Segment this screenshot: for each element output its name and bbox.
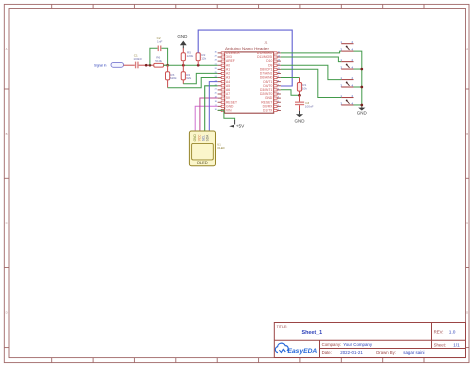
svg-text:J1: J1 [264, 41, 268, 45]
wire A4 to OLED SDA [209, 82, 217, 131]
svg-text:Date:: Date: [322, 350, 332, 355]
wire GND pin to OLED GND [195, 106, 217, 131]
push button S1 [340, 40, 353, 52]
pin 6 D3/INT1 (right) [260, 88, 281, 92]
svg-text:10k: 10k [302, 87, 307, 91]
resistor R4 62k [181, 65, 191, 84]
pin 20 A7 (left) [215, 92, 231, 96]
pin 28 AREF (left) [215, 59, 235, 63]
svg-text:D: D [466, 311, 468, 315]
svg-text:D: D [6, 311, 8, 315]
wire R2 top to D4 (blue) [198, 30, 292, 86]
svg-text:C: C [466, 221, 468, 225]
svg-text:TITLE:: TITLE: [277, 325, 288, 329]
svg-text:100nF: 100nF [305, 105, 314, 109]
pin 30 D13/SCK (left) [215, 51, 241, 55]
pin 24 A3 (left) [215, 76, 231, 80]
pin 13 D10 (right) [266, 59, 281, 63]
pin 9 D6/AIN0 (right) [260, 76, 281, 80]
svg-text:B: B [466, 132, 468, 136]
svg-text:A: A [6, 47, 8, 51]
wire main node to A0 [164, 64, 218, 66]
capacitor C3 100nF [295, 95, 314, 110]
wire A5 to OLED SCL [205, 86, 218, 131]
title block [274, 323, 465, 358]
ground flag below C3 [295, 111, 306, 124]
svg-text:GND: GND [295, 119, 306, 124]
pin 8 D5/T1 (right) [263, 80, 281, 84]
wire D3 to R1/C3 node [281, 90, 300, 96]
svg-text:REV:: REV: [434, 329, 444, 334]
EasyEDA logo [275, 343, 317, 355]
connector J1 Arduino Nano Header [225, 41, 274, 114]
pin 23 A4 (left) [215, 80, 231, 84]
title block texts [277, 325, 461, 355]
node R1 / C3 / D3 [298, 94, 301, 97]
svg-text:Drawn By:: Drawn By: [376, 350, 396, 355]
wire R4 bottom to A2 [183, 73, 217, 83]
OLED module U1 [189, 131, 224, 166]
pin 7 D4/T0 (right) [263, 84, 281, 88]
pin 17 GND (left) [215, 104, 234, 108]
svg-text:Signal In: Signal In [94, 63, 107, 67]
pin 21 A6 (left) [215, 88, 231, 92]
pin 22 A5 (left) [215, 84, 231, 88]
pin 15 D12/MISO (right) [257, 51, 281, 55]
push button S4 [340, 94, 353, 106]
svg-text:2022-01-21: 2022-01-21 [340, 350, 363, 355]
pin 14 D11/MOSI (right) [257, 55, 281, 59]
wire R3 bottom to A3 [168, 78, 218, 88]
pin 1 D1/TX (right) [263, 109, 281, 113]
wire C1 to R6 [139, 64, 154, 66]
pin 27 A0 (left) [215, 63, 231, 67]
svg-text:1nF: 1nF [157, 40, 162, 44]
svg-text:D1/TX: D1/TX [263, 109, 273, 113]
svg-text:GND: GND [177, 34, 188, 39]
pin 12 D9 (right) [268, 63, 281, 67]
wire Signal In to C1 [124, 64, 135, 66]
node bus S2 [360, 68, 363, 71]
resistor R3 620k [166, 65, 178, 88]
pin 10 D7/AIN1 (right) [260, 72, 281, 76]
svg-text:B: B [6, 132, 8, 136]
pin 19 5V (left) [215, 96, 231, 100]
svg-text:A: A [466, 47, 468, 51]
wire 5V pin to OLED VCC [200, 98, 218, 131]
pin 25 A2 (left) [215, 72, 231, 76]
capacitor C1 100nF [133, 53, 142, 68]
wire D8 to button S4 [281, 69, 341, 97]
svg-text:12k: 12k [201, 57, 206, 61]
push button S2 [340, 58, 353, 69]
svg-text:GND: GND [357, 110, 368, 115]
resistor R6 510k [154, 56, 168, 68]
wire D11 to button S2 [281, 57, 341, 62]
resistor R1 10k [297, 83, 307, 96]
capacitor C2 1nF [150, 36, 168, 65]
svg-text:sagar saini: sagar saini [403, 350, 424, 355]
wire button ground bus [354, 51, 362, 107]
svg-text:Your Company: Your Company [343, 342, 373, 347]
svg-text:1/1: 1/1 [453, 343, 460, 348]
wire VIN to +5V flag [218, 110, 235, 120]
power flag +5V [229, 120, 245, 129]
svg-text:Sheet:: Sheet: [434, 343, 446, 348]
node R2 on main line [197, 64, 200, 67]
svg-text:EasyEDA: EasyEDA [288, 348, 318, 355]
pin 26 A1 (left) [215, 67, 231, 71]
ground flag above R5 [177, 34, 188, 48]
svg-text:+5V: +5V [236, 124, 245, 129]
svg-text:C: C [6, 221, 8, 225]
svg-text:Sheet_1: Sheet_1 [302, 330, 323, 336]
svg-text:VIN: VIN [226, 109, 232, 113]
svg-text:Company:: Company: [322, 342, 342, 347]
pin 5 D2/INT0 (right) [260, 92, 281, 96]
svg-text:620k: 620k [170, 76, 177, 80]
pin 2 D0/RX (right) [263, 104, 281, 108]
pin 16 VIN (left) [215, 109, 233, 113]
pin 11 D8/ICP1 (right) [260, 67, 281, 71]
svg-text:100nF: 100nF [133, 57, 142, 61]
node R6 right / C2 / R3 [166, 64, 169, 67]
pin 29 3V3 (left) [215, 55, 232, 59]
svg-text:510k: 510k [155, 59, 162, 63]
push button S3 [340, 76, 353, 88]
resistor R5 120k [181, 48, 193, 65]
net port Signal In [94, 62, 124, 67]
wire D6 to R1 [281, 78, 300, 83]
wire D9 to button S3 [281, 65, 341, 79]
pin 4 GND (right) [265, 96, 281, 100]
svg-text:OLED: OLED [217, 146, 224, 150]
resistor R2 12k [196, 53, 207, 65]
node bus S3 [360, 86, 363, 89]
svg-text:OLED: OLED [197, 160, 208, 165]
svg-text:62k: 62k [186, 76, 191, 80]
pin 3 RESET (right) [261, 100, 281, 104]
wire D12 to button S1 [281, 51, 341, 53]
node bus S4 [360, 104, 363, 107]
svg-text:1.0: 1.0 [449, 330, 456, 336]
pin 18 RESET (left) [215, 100, 237, 104]
svg-text:120k: 120k [187, 54, 194, 58]
ground flag below buttons [357, 107, 368, 116]
svg-text:SDA: SDA [206, 134, 210, 141]
node R5 / R4 on main line [182, 64, 185, 67]
node after C1 [145, 64, 151, 67]
